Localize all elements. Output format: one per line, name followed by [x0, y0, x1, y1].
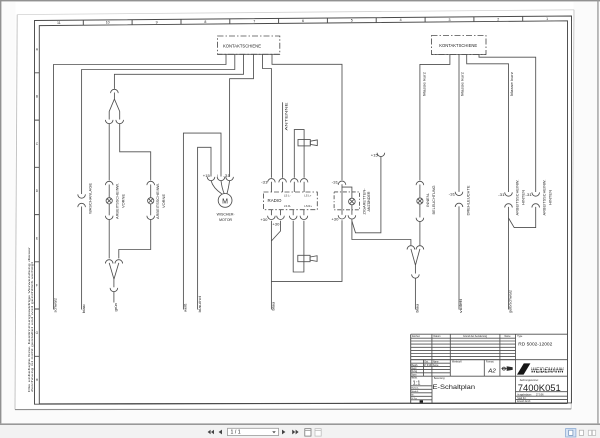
- left border zone tick marks: [35, 73, 40, 357]
- svg-text:grün: grün: [114, 303, 118, 312]
- window top border: [0, 0, 600, 1]
- connector rear lamp 1 lower half: [505, 204, 513, 208]
- svg-text:Masse kurz: Masse kurz: [510, 72, 514, 96]
- wire lamp1 down to merge: [108, 219, 110, 258]
- wire lighter out to merge: [352, 219, 411, 246]
- svg-text:weiß: weiß: [184, 303, 188, 312]
- svg-text:INNEN-: INNEN-: [426, 192, 430, 207]
- svg-text:ZIGARETTEN-: ZIGARETTEN-: [362, 188, 366, 215]
- connector radio +30 main: [268, 216, 276, 220]
- wire bottom speaker loop: [293, 221, 304, 272]
- svg-text:Dat.: Dat.: [425, 361, 429, 364]
- wire lamp1 stub top: [108, 185, 110, 198]
- connector merge output right: [412, 274, 420, 278]
- wire rail1 pin5 to radio -31: [263, 54, 272, 178]
- svg-text:7400K051: 7400K051: [518, 383, 561, 394]
- svg-text:1:1: 1:1: [413, 381, 421, 387]
- wire lighter -31 to lamp: [342, 184, 352, 198]
- wire merge V front lamps left: [109, 263, 114, 287]
- wire to front work lamp 2: [120, 124, 151, 181]
- svg-text:Bezug: Bezug: [412, 371, 418, 373]
- contact rail box 2 KONTAKTSCHIENE: [432, 36, 487, 55]
- wire lighter lamp stub bottom: [351, 205, 353, 215]
- svg-text:-31: -31: [498, 193, 505, 197]
- connector beacon upper half: [455, 192, 463, 196]
- wire rail2 pin1 to interior light: [420, 55, 450, 181]
- wire radio top pin stubs: [271, 182, 304, 192]
- wire splice right branch: [114, 99, 119, 120]
- wire interior light stub top: [419, 185, 421, 198]
- left border zone letters: [36, 47, 39, 382]
- wire merge to blau right: [414, 278, 416, 310]
- connector splice front lamps: [111, 89, 119, 93]
- connector radio -31: [268, 179, 276, 183]
- contact rail box 1 KONTAKTSCHIENE: [218, 36, 280, 54]
- svg-text:blau: blau: [416, 304, 420, 313]
- connector beacon lower half: [455, 203, 463, 207]
- svg-text:ARBEITSSCHEINW.: ARBEITSSCHEINW.: [515, 180, 519, 216]
- svg-text:DREHLEUCHTE: DREHLEUCHTE: [467, 185, 471, 215]
- button last page: [292, 430, 298, 435]
- svg-text:-31: -31: [525, 193, 532, 197]
- svg-text:F: F: [36, 284, 38, 288]
- wire splice left branch: [109, 93, 114, 120]
- svg-text:blau: blau: [272, 302, 276, 311]
- svg-text:Format:: Format:: [486, 361, 494, 364]
- page number dropdown arrow: [272, 431, 276, 433]
- svg-text:LS L+: LS L+: [304, 194, 311, 198]
- wire rail1 pin1 to schwarz: [54, 54, 227, 309]
- wire rear lamp 1 to gelb-schwarz: [508, 207, 510, 310]
- wire radio +30 memory join: [271, 221, 280, 241]
- wire radio +30 to lighter +30: [271, 220, 342, 281]
- svg-text:3: 3: [449, 18, 451, 22]
- svg-text:Gepr.: Gepr.: [412, 367, 418, 370]
- connector wiper motor 53: [217, 177, 225, 181]
- svg-text:VORNE: VORNE: [162, 194, 166, 208]
- connector lighter lamp out: [348, 215, 356, 219]
- wire top speaker loop: [294, 130, 304, 178]
- svg-text:7: 7: [253, 19, 255, 23]
- svg-text:6: 6: [302, 19, 304, 23]
- wire weiss up to wiper motor pin 53: [183, 133, 221, 309]
- svg-text:KONTAKTSCHIENE: KONTAKTSCHIENE: [223, 44, 261, 49]
- svg-text:Benennung:: Benennung:: [434, 377, 445, 380]
- radio U1 box: [264, 192, 318, 210]
- svg-text:blau/rot: blau/rot: [198, 296, 202, 313]
- connector rear lamp 1 upper half: [505, 192, 513, 196]
- top border zone tick marks: [83, 16, 571, 25]
- wire washer connector to blau: [81, 207, 83, 310]
- svg-text:I: I: [217, 174, 218, 178]
- connector merge right blau right: [416, 246, 424, 250]
- wire rail2 pin3 to rear lamp 1: [467, 55, 509, 193]
- connector interior light bottom: [416, 218, 424, 222]
- wire motor lead left: [211, 181, 222, 194]
- svg-text:-31: -31: [223, 174, 230, 178]
- view mode button continuous: [579, 430, 583, 435]
- trim border outer frame: [35, 16, 572, 404]
- svg-text:Masse kurz: Masse kurz: [461, 72, 465, 96]
- svg-text:Masse kurz: Masse kurz: [423, 72, 427, 96]
- svg-text:Modell-: Modell-: [412, 391, 419, 393]
- connector splice right branch socket: [116, 120, 124, 124]
- svg-text:+30: +30: [260, 218, 267, 222]
- connector rear lamp 2 lower half: [532, 204, 540, 208]
- svg-text:10: 10: [106, 21, 110, 25]
- svg-text:VORNE: VORNE: [121, 194, 125, 208]
- connector radio LS L+: [300, 179, 308, 183]
- connector lighter +30 body: [338, 215, 346, 219]
- wire rail2 pin4 to rear lamp 2: [479, 55, 536, 193]
- svg-text:27.9.96: 27.9.96: [424, 365, 432, 367]
- connector wiper motor -31: [226, 177, 234, 181]
- svg-text:+30: +30: [272, 222, 279, 226]
- svg-text:Werkstoff:: Werkstoff:: [452, 361, 462, 364]
- svg-text:schwarz: schwarz: [54, 298, 58, 313]
- wire antenna lead: [282, 102, 284, 178]
- projection symbol: [501, 367, 512, 371]
- connector +15 feed: [377, 153, 385, 157]
- svg-text:ANZÜNDER: ANZÜNDER: [367, 191, 371, 211]
- toolbar separator: [0, 423, 600, 425]
- svg-text:Ersetzt durch:: Ersetzt durch:: [517, 400, 531, 403]
- svg-text:Maßst.: Maßst.: [412, 377, 418, 380]
- wire rail2 pin2 to beacon: [458, 55, 460, 192]
- wire merge V right right: [416, 249, 420, 265]
- svg-text:ANTENNE: ANTENNE: [284, 102, 289, 130]
- title block lower band lines: [411, 376, 568, 403]
- svg-text:+15: +15: [203, 174, 210, 178]
- svg-text:WISCHER-: WISCHER-: [217, 211, 236, 216]
- connector merge left blau right: [407, 246, 415, 250]
- wire +15 to lighter lamp: [352, 156, 381, 233]
- svg-text:5: 5: [351, 19, 353, 23]
- wire rail1 pin6 to lighter -31: [272, 54, 342, 180]
- connector merge left front lamps: [105, 260, 113, 264]
- svg-text:Zeichnungsnummer:: Zeichnungsnummer:: [520, 379, 539, 382]
- svg-text:LS L-: LS L-: [284, 194, 291, 198]
- svg-text:Rohteil-: Rohteil-: [412, 387, 419, 390]
- wire to front work lamp 1: [108, 124, 110, 181]
- page bottom edge: [15, 408, 571, 411]
- svg-text:Name: Name: [505, 335, 512, 338]
- connector front work lamp 1 top: [105, 181, 113, 185]
- window right border: [597, 0, 598, 423]
- connector radio antenna: [279, 179, 287, 183]
- wire blau-rot up to wiper motor pin +15: [198, 147, 211, 309]
- svg-text:E-Schaltplan: E-Schaltplan: [433, 384, 476, 391]
- svg-text:1 / 1: 1 / 1: [231, 430, 241, 436]
- svg-text:1: 1: [546, 17, 548, 21]
- svg-text:HINTEN: HINTEN: [522, 190, 526, 205]
- svg-text:+15: +15: [371, 154, 378, 158]
- speaker LS1 top: [298, 140, 317, 146]
- svg-text:-31: -31: [449, 193, 456, 197]
- connector radio LS L-: [291, 179, 299, 183]
- button first page: [208, 430, 214, 434]
- svg-text:Norm: Norm: [412, 373, 417, 376]
- wire rear lamp 2 join rear lamp 1: [509, 207, 536, 228]
- svg-text:A2: A2: [487, 368, 496, 374]
- svg-text:LS R-: LS R-: [284, 204, 291, 208]
- button previous view: [305, 429, 311, 436]
- top border zone numbers 11 to 1: [57, 17, 548, 25]
- wire motor lead right: [227, 181, 230, 194]
- connector radio +30 memory: [277, 216, 285, 220]
- svg-text:2: 2: [497, 17, 499, 21]
- connector washer pump upper half: [78, 194, 86, 198]
- svg-text:W Zg-: W Zg-: [412, 398, 418, 400]
- wire merge to gruen label: [113, 292, 115, 303]
- svg-text:Bearb.: Bearb.: [412, 364, 419, 367]
- svg-text:Nr.: Nr.: [412, 394, 415, 397]
- svg-text:BELEUCHTUNG: BELEUCHTUNG: [432, 185, 436, 214]
- svg-text:KONTAKTSCHIENE: KONTAKTSCHIENE: [439, 43, 477, 48]
- title block middle band lines: [411, 360, 568, 377]
- wire lamp1 stub bottom: [108, 204, 110, 215]
- svg-text:ARBEITSSCHEINW.: ARBEITSSCHEINW.: [542, 180, 546, 216]
- svg-text:blau: blau: [82, 305, 86, 314]
- svg-text:8: 8: [204, 20, 206, 24]
- connector interior light top: [416, 181, 424, 185]
- svg-text:Name: Name: [433, 362, 439, 364]
- connector radio LS R+: [300, 216, 308, 220]
- connector rear lamp 2 upper half: [532, 192, 540, 196]
- svg-text:RADIO: RADIO: [268, 198, 283, 203]
- title block outline: [411, 334, 568, 403]
- svg-text:E: E: [36, 236, 38, 240]
- connector merge right front lamps: [115, 260, 123, 264]
- wire rail1 pin4 to wiper motor -31: [230, 54, 254, 176]
- svg-text:Grund der Aenderung: Grund der Aenderung: [463, 335, 488, 338]
- window left border: [0, 0, 1, 423]
- manufacturer logo mark: [517, 363, 530, 374]
- svg-text:-31: -31: [332, 180, 339, 184]
- wire interior light to merge: [419, 221, 421, 246]
- lamp E2 ARBEITSSCHEINW. VORNE 2: [148, 198, 154, 204]
- svg-text:B: B: [36, 95, 38, 99]
- view mode button facing: [588, 430, 595, 435]
- svg-text:RD 5002-12002: RD 5002-12002: [518, 342, 553, 347]
- connector washer pump lower half: [78, 203, 86, 207]
- page number box: [228, 428, 279, 435]
- wire rail1 pin3 to front lamp splice: [114, 54, 243, 89]
- svg-text:Keipe: Keipe: [433, 365, 439, 367]
- svg-text:27.9.96: 27.9.96: [536, 393, 544, 396]
- svg-text:ARBEITSSCHEINW.: ARBEITSSCHEINW.: [115, 183, 119, 219]
- connector merge output front lamps: [110, 288, 118, 292]
- page top edge: [17, 10, 574, 15]
- wire merge V right left: [411, 249, 416, 274]
- wire motor lead middle: [221, 181, 224, 194]
- speaker LS2 bottom: [298, 255, 317, 261]
- svg-text:violett: violett: [459, 299, 463, 313]
- svg-text:MOTOR: MOTOR: [219, 217, 232, 222]
- svg-text:HINTEN: HINTEN: [549, 190, 553, 205]
- wire rail1 pin2 to washer connector: [82, 54, 235, 194]
- wire merge V front lamps right: [114, 263, 119, 279]
- wire lamp2 down to merge: [119, 219, 151, 258]
- title block marker square: [420, 400, 423, 402]
- lamp lighter glow E3: [349, 198, 356, 205]
- svg-text:9: 9: [156, 20, 158, 24]
- svg-text:4: 4: [400, 18, 402, 22]
- motor M1 WISCHER-MOTOR circle: [218, 194, 232, 208]
- wire beacon to violett: [458, 206, 460, 309]
- view mode button single page active: [566, 429, 576, 437]
- button next page: [282, 430, 285, 435]
- connector radio LS R-: [289, 216, 297, 220]
- connector front work lamp 2 bottom: [147, 216, 155, 220]
- title block revision table lines: [411, 334, 516, 376]
- svg-text:+30: +30: [331, 217, 338, 221]
- svg-text:Type: Type: [517, 335, 523, 338]
- connector wiper motor +15: [207, 177, 215, 181]
- button next view disabled: [315, 429, 321, 436]
- svg-text:Zeichen: Zeichen: [412, 335, 421, 338]
- svg-text:ARBEITSSCHEINW.: ARBEITSSCHEINW.: [156, 183, 160, 219]
- svg-text:M: M: [222, 198, 228, 205]
- svg-text:gelb/schwarz: gelb/schwarz: [509, 290, 513, 313]
- page left edge: [15, 15, 17, 410]
- wire lamp2 stub top: [150, 185, 152, 198]
- page right edge: [571, 10, 574, 409]
- lamp E1 ARBEITSSCHEINW. VORNE 1: [106, 198, 112, 204]
- lighter E3 box: [334, 192, 359, 210]
- svg-text:11: 11: [57, 21, 61, 25]
- inner drawing frame: [39, 21, 567, 404]
- svg-text:-31: -31: [261, 180, 268, 184]
- connector front work lamp 2 top: [147, 181, 155, 185]
- button previous page: [219, 430, 222, 435]
- toolbar background: [0, 425, 600, 438]
- connector lighter -31: [338, 181, 346, 185]
- svg-text:LS R+: LS R+: [304, 204, 312, 208]
- wire lamp2 stub bottom: [150, 204, 152, 215]
- connector splice left branch socket: [105, 120, 113, 124]
- wire radio +30 to blau: [270, 221, 272, 310]
- wire lighter body lead: [341, 187, 343, 215]
- svg-text:Datum: Datum: [434, 335, 441, 338]
- lamp E4 INNEN-BELEUCHTUNG: [417, 198, 423, 204]
- svg-text:WASCHANLAGE: WASCHANLAGE: [89, 183, 93, 214]
- wire radio bottom pin stubs: [271, 210, 304, 216]
- connector front work lamp 1 bottom: [105, 216, 113, 220]
- svg-text:Zeichnung ist nicht gestattet: Zeichnung ist nicht gestattet und wird g…: [30, 262, 34, 392]
- wire interior light stub bottom: [419, 204, 421, 217]
